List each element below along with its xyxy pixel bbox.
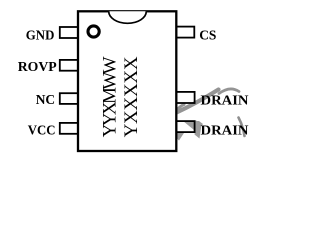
svg-text:YXXXXX: YXXXXX — [121, 56, 142, 137]
svg-text:VCC: VCC — [28, 123, 56, 138]
svg-text:ROVP: ROVP — [18, 60, 57, 75]
svg-text:YYXMWW: YYXMWW — [100, 56, 121, 137]
svg-text:CS: CS — [199, 29, 216, 44]
svg-text:NC: NC — [36, 93, 55, 108]
svg-text:DRAIN: DRAIN — [201, 94, 249, 109]
svg-text:DRAIN: DRAIN — [201, 124, 249, 139]
svg-text:GND: GND — [26, 28, 55, 43]
